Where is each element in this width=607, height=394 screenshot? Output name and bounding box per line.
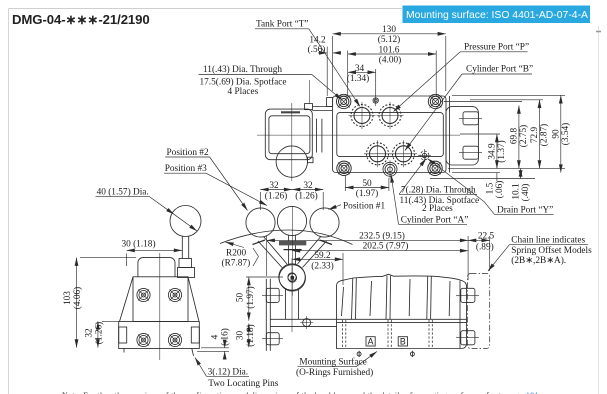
svg-text:50: 50 (362, 179, 372, 189)
svg-text:30: 30 (236, 331, 246, 341)
svg-text:232.5 (9.15): 232.5 (9.15) (359, 230, 405, 241)
svg-text:B: B (400, 336, 406, 346)
svg-text:(2.75): (2.75) (518, 125, 529, 147)
svg-text:103: 103 (63, 291, 73, 305)
svg-text:Position #1: Position #1 (343, 201, 385, 211)
svg-text:R200: R200 (226, 248, 246, 258)
svg-text:(1.97): (1.97) (245, 286, 256, 308)
svg-text:69.8: 69.8 (509, 128, 519, 145)
svg-text:(R7.87): (R7.87) (222, 258, 251, 269)
svg-text:(2B∗,2B∗A).: (2B∗,2B∗A). (511, 255, 566, 266)
svg-text:(5.12): (5.12) (378, 34, 400, 45)
svg-text:202.5 (7.97): 202.5 (7.97) (363, 241, 409, 252)
svg-text:Pressure Port “P”: Pressure Port “P” (464, 43, 529, 53)
svg-text:(1.26): (1.26) (94, 322, 105, 344)
svg-text:Note: For the other versions o: Note: For the other versions of the conf… (62, 391, 541, 394)
svg-text:(.06): (.06) (494, 181, 505, 199)
svg-text:(4.00): (4.00) (379, 54, 401, 65)
svg-text:1.5: 1.5 (486, 182, 496, 194)
svg-text:7(.28) Dia. Through: 7(.28) Dia. Through (401, 184, 476, 195)
svg-text:Two Locating Pins: Two Locating Pins (208, 379, 278, 389)
svg-text:(4.06): (4.06) (72, 287, 83, 309)
svg-text:2 Places: 2 Places (422, 204, 453, 214)
svg-text:(1.37): (1.37) (496, 140, 507, 162)
svg-text:Cylinder Port “B”: Cylinder Port “B” (466, 64, 533, 74)
svg-text:11(.43) Dia. Through: 11(.43) Dia. Through (203, 64, 282, 75)
svg-text:DMG-04-∗∗∗-21/2190: DMG-04-∗∗∗-21/2190 (12, 12, 150, 27)
svg-text:59.2: 59.2 (314, 251, 331, 261)
svg-text:(3.54): (3.54) (560, 123, 571, 145)
svg-text:Mounting surface: ISO 4401-AD-: Mounting surface: ISO 4401-AD-07-4-A (406, 10, 588, 21)
svg-text:90: 90 (551, 129, 561, 139)
svg-text:(1.34): (1.34) (347, 73, 369, 84)
svg-text:34: 34 (355, 64, 365, 74)
svg-text:4: 4 (211, 334, 221, 339)
svg-text:10.1: 10.1 (511, 183, 521, 200)
svg-text:(2.33): (2.33) (311, 261, 333, 272)
svg-text:34.9: 34.9 (488, 143, 498, 160)
svg-text:Spring Offset Models: Spring Offset Models (511, 245, 592, 256)
svg-text:(1.26): (1.26) (265, 191, 287, 202)
svg-text:(2.87): (2.87) (539, 124, 550, 146)
svg-text:Cylinder Port “A”: Cylinder Port “A” (401, 215, 469, 225)
svg-text:14.2: 14.2 (309, 36, 326, 46)
svg-text:(1.18): (1.18) (245, 324, 256, 346)
svg-text:Chain line indicates: Chain line indicates (511, 236, 585, 246)
svg-text:32: 32 (84, 328, 94, 338)
svg-text:(O-Rings Furnished): (O-Rings Furnished) (296, 367, 373, 378)
svg-text:30 (1.18): 30 (1.18) (121, 239, 155, 250)
svg-text:50: 50 (236, 293, 246, 303)
svg-text:(1.97): (1.97) (356, 188, 378, 199)
svg-text:Tank Port “T”: Tank Port “T” (256, 20, 309, 30)
svg-text:(1.26): (1.26) (295, 191, 317, 202)
svg-text:17.5(.69) Dia. Spotface: 17.5(.69) Dia. Spotface (200, 76, 287, 87)
svg-text:40 (1.57) Dia.: 40 (1.57) Dia. (97, 187, 149, 198)
svg-text:130: 130 (382, 25, 396, 35)
svg-text:Drain Port “Y”: Drain Port “Y” (497, 205, 553, 215)
svg-text:(.40): (.40) (520, 184, 531, 202)
svg-text:72.9: 72.9 (530, 127, 540, 144)
svg-text:32: 32 (303, 181, 313, 191)
svg-text:4 Places: 4 Places (228, 87, 259, 97)
svg-text:(.89): (.89) (476, 242, 494, 253)
svg-text:3(.12) Dia.: 3(.12) Dia. (208, 366, 249, 377)
svg-text:Position #3: Position #3 (165, 164, 207, 174)
svg-text:22.5: 22.5 (478, 231, 495, 241)
svg-text:(.16): (.16) (220, 328, 231, 346)
svg-text:A: A (368, 336, 374, 346)
svg-text:101.6: 101.6 (379, 46, 400, 56)
svg-text:32: 32 (269, 181, 279, 191)
